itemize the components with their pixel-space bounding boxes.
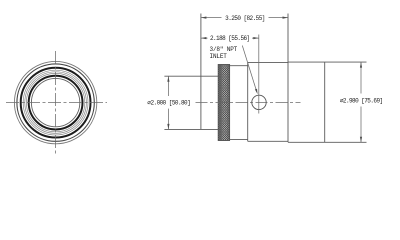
front-view vertical centerline	[55, 51, 57, 155]
body/cylinder joint face + 3.250 extension	[287, 14, 289, 143]
main body bottom edge	[248, 140, 288, 142]
left tube top edge + dim extension	[164, 75, 218, 77]
knurled band	[218, 65, 229, 141]
dim line 3.250	[201, 17, 288, 19]
arrow right 2.188	[253, 37, 258, 39]
svg-text:INLET: INLET	[210, 53, 228, 60]
side-view centerline	[196, 101, 301, 103]
svg-text:∅2.000 [50.80]: ∅2.000 [50.80]	[147, 99, 190, 106]
svg-text:3.250 [82.55]: 3.250 [82.55]	[225, 15, 265, 22]
inner chamfer circle	[31, 78, 79, 126]
leader arrowhead	[255, 89, 258, 95]
arrow down dia2.980	[360, 137, 362, 143]
heavy collar ring	[21, 68, 91, 138]
left tube face (dia 2.000)	[200, 14, 202, 130]
leader line	[242, 46, 256, 91]
svg-text:∅2.980 [75.69]: ∅2.980 [75.69]	[340, 97, 383, 104]
heavy bore ring (dia 2.000)	[29, 76, 83, 130]
arrow left 2.188	[201, 37, 207, 39]
arrow up dia2.980	[360, 62, 362, 68]
arrow down dia2.000	[167, 124, 169, 129]
svg-text:3/8" NPT: 3/8" NPT	[210, 46, 238, 53]
right cylinder top edge + dia extension	[288, 61, 367, 63]
collar/body step face	[247, 62, 249, 141]
left tube bottom edge + dim extension	[164, 128, 218, 130]
inlet hole vertical centerline / 2.188 extension	[258, 35, 260, 114]
arrow left 3.250	[201, 17, 207, 19]
dim line dia2.980	[360, 62, 362, 142]
knurl texture rings	[23, 70, 88, 135]
arrow right 3.250	[283, 17, 289, 19]
main body top edge	[248, 61, 288, 63]
svg-text:2.188 [55.56]: 2.188 [55.56]	[210, 35, 250, 42]
knurl shading right	[227, 65, 229, 140]
right cylinder bottom edge + dia extension	[288, 141, 367, 143]
dim line dia2.000	[167, 76, 169, 129]
3/8 NPT inlet hole	[252, 95, 266, 109]
arrow up dia2.000	[167, 76, 169, 82]
knurl shading left	[219, 65, 222, 140]
front-view horizontal centerline	[6, 102, 107, 104]
outer circle (OD 2.980 silhouette)	[14, 61, 96, 143]
right end face	[324, 62, 326, 142]
dim line 2.188	[201, 37, 259, 39]
collar bottom edge	[230, 138, 248, 140]
collar top edge	[230, 65, 248, 67]
knurl OD circle	[17, 64, 94, 141]
